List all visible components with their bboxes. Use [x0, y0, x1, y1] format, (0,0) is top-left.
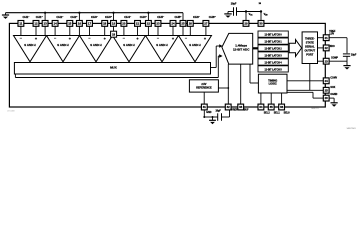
- svg-text:SEL0: SEL0: [284, 111, 291, 114]
- svg-text:22: 22: [147, 22, 151, 26]
- svg-text:12-BIT LATCH 2: 12-BIT LATCH 2: [265, 47, 283, 50]
- svg-text:S AND H: S AND H: [90, 43, 101, 47]
- svg-text:32: 32: [227, 105, 231, 109]
- svg-text:S AND H: S AND H: [24, 43, 35, 47]
- svg-text:S AND H: S AND H: [156, 43, 167, 47]
- svg-text:12-BIT LATCH 0: 12-BIT LATCH 0: [265, 34, 283, 37]
- svg-text:24: 24: [171, 22, 175, 26]
- svg-text:S AND H: S AND H: [57, 43, 68, 47]
- svg-text:23: 23: [156, 22, 160, 26]
- svg-text:27: 27: [204, 22, 208, 26]
- svg-text:12-BIT LATCH 1: 12-BIT LATCH 1: [265, 41, 283, 44]
- svg-text:30: 30: [259, 22, 263, 26]
- svg-text:24: 24: [325, 79, 329, 83]
- svg-text:THREE-: THREE-: [305, 36, 315, 40]
- svg-text:20: 20: [325, 96, 329, 100]
- svg-text:18: 18: [103, 22, 107, 26]
- svg-text:CONV: CONV: [330, 78, 337, 80]
- svg-text:23: 23: [325, 59, 329, 63]
- svg-text:STATE: STATE: [306, 40, 314, 44]
- svg-text:LTC1408: LTC1408: [7, 110, 14, 113]
- svg-text:19: 19: [112, 22, 116, 26]
- svg-text:12-BIT LATCH 4: 12-BIT LATCH 4: [265, 61, 283, 64]
- svg-text:VREF: VREF: [231, 110, 238, 112]
- svg-text:29: 29: [244, 22, 248, 26]
- svg-text:2.5V: 2.5V: [329, 33, 334, 35]
- svg-text:21: 21: [136, 22, 140, 26]
- svg-text:MUX: MUX: [110, 65, 117, 69]
- svg-text:15: 15: [68, 22, 72, 26]
- svg-text:SEL2: SEL2: [264, 111, 271, 114]
- svg-text:11: 11: [19, 22, 22, 26]
- svg-text:10µF: 10µF: [231, 2, 237, 5]
- svg-text:OGND: OGND: [330, 94, 337, 96]
- svg-text:12-BIT LATCH 3: 12-BIT LATCH 3: [265, 54, 283, 57]
- svg-text:34: 34: [259, 105, 263, 109]
- svg-text:S AND H: S AND H: [123, 43, 134, 47]
- svg-text:S AND H: S AND H: [189, 43, 200, 47]
- svg-text:LOGIC: LOGIC: [269, 81, 277, 85]
- svg-text:12-BIT ADC: 12-BIT ADC: [233, 48, 250, 52]
- svg-text:1408 F01: 1408 F01: [311, 107, 319, 110]
- svg-text:12-BIT LATCH 5: 12-BIT LATCH 5: [265, 68, 283, 71]
- svg-text:31: 31: [203, 105, 207, 109]
- svg-text:12: 12: [34, 22, 38, 26]
- svg-text:COMP: COMP: [331, 57, 338, 59]
- svg-text:1408 TA01: 1408 TA01: [347, 127, 356, 130]
- svg-text:SDO: SDO: [330, 46, 335, 48]
- svg-text:13: 13: [43, 22, 47, 26]
- svg-text:BUF: BUF: [244, 110, 249, 112]
- svg-text:25: 25: [181, 22, 185, 26]
- svg-text:33: 33: [239, 105, 243, 109]
- svg-text:20: 20: [122, 22, 126, 26]
- svg-text:14: 14: [53, 22, 57, 26]
- svg-text:SCK: SCK: [330, 87, 335, 89]
- svg-text:17: 17: [88, 22, 92, 26]
- svg-text:SERIAL: SERIAL: [305, 44, 315, 48]
- svg-text:25: 25: [325, 88, 329, 92]
- svg-text:35: 35: [270, 105, 274, 109]
- svg-text:26: 26: [189, 22, 193, 26]
- svg-text:10µF: 10µF: [216, 111, 222, 113]
- svg-text:GND: GND: [206, 112, 211, 114]
- svg-text:SEL1: SEL1: [274, 111, 281, 114]
- svg-text:PORT: PORT: [306, 52, 314, 56]
- svg-text:16: 16: [78, 22, 82, 26]
- svg-text:OUTPUT: OUTPUT: [304, 48, 315, 52]
- svg-text:10µF: 10µF: [351, 54, 357, 56]
- svg-text:22: 22: [325, 46, 329, 50]
- svg-text:21: 21: [325, 36, 329, 40]
- svg-text:36: 36: [280, 105, 284, 109]
- svg-text:REFERENCE: REFERENCE: [196, 86, 212, 89]
